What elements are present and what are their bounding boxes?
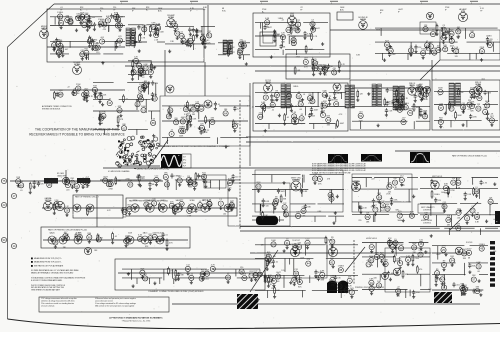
svg-text:68: 68 bbox=[152, 184, 154, 186]
svg-text:120: 120 bbox=[271, 288, 274, 290]
svg-text:68: 68 bbox=[283, 46, 285, 48]
svg-text:4.7K: 4.7K bbox=[475, 212, 480, 214]
svg-text:100K: 100K bbox=[281, 191, 286, 193]
svg-text:©Howard W. Sams & Co., Inc. 19: ©Howard W. Sams & Co., Inc. 1955 bbox=[122, 320, 151, 323]
svg-text:68: 68 bbox=[331, 66, 333, 68]
svg-text:100K: 100K bbox=[141, 106, 146, 108]
svg-text:1 MEG: 1 MEG bbox=[141, 27, 147, 29]
svg-text:THE COOPERATION OF THE MANUFAC: THE COOPERATION OF THE MANUFACTURER OF T… bbox=[35, 128, 119, 132]
svg-text:270K: 270K bbox=[36, 183, 41, 185]
svg-text:2.2K: 2.2K bbox=[54, 200, 59, 202]
svg-text:100K: 100K bbox=[387, 102, 392, 104]
svg-text:1 MEG: 1 MEG bbox=[486, 35, 492, 37]
svg-text:1 MEG: 1 MEG bbox=[293, 86, 299, 88]
svg-text:.22: .22 bbox=[281, 19, 284, 21]
svg-text:4.7K: 4.7K bbox=[138, 66, 143, 68]
svg-text:1.5K: 1.5K bbox=[151, 119, 156, 121]
svg-text:270K: 270K bbox=[159, 240, 164, 242]
svg-text:MEASURED FROM TOP (12V) TL: MEASURED FROM TOP (12V) TL bbox=[34, 257, 62, 260]
svg-text:120: 120 bbox=[96, 52, 99, 54]
svg-text:1.5K: 1.5K bbox=[321, 111, 326, 113]
svg-text:12CU6: 12CU6 bbox=[45, 200, 53, 202]
svg-text:560K: 560K bbox=[397, 220, 402, 222]
svg-text:.001: .001 bbox=[456, 285, 460, 287]
svg-text:68: 68 bbox=[468, 257, 470, 259]
svg-text:.01: .01 bbox=[165, 235, 168, 237]
svg-text:100K: 100K bbox=[241, 41, 246, 43]
svg-text:120: 120 bbox=[281, 270, 284, 272]
svg-text:.0047: .0047 bbox=[408, 109, 414, 111]
svg-text:FOCUS: FOCUS bbox=[466, 242, 473, 244]
svg-text:.22: .22 bbox=[329, 96, 332, 98]
svg-text:.01: .01 bbox=[20, 190, 23, 192]
svg-text:560K: 560K bbox=[337, 93, 342, 95]
svg-text:270K: 270K bbox=[101, 112, 106, 114]
svg-text:B+: B+ bbox=[100, 10, 102, 12]
svg-text:.0047: .0047 bbox=[230, 52, 235, 54]
svg-text:317: 317 bbox=[183, 157, 186, 159]
svg-text:3.3K: 3.3K bbox=[345, 286, 350, 288]
svg-text:.001: .001 bbox=[205, 278, 209, 280]
svg-text:100K: 100K bbox=[205, 269, 210, 271]
svg-text:.0047: .0047 bbox=[180, 117, 186, 119]
svg-text:.22: .22 bbox=[142, 77, 145, 79]
svg-text:120: 120 bbox=[451, 105, 454, 107]
svg-text:.01: .01 bbox=[297, 101, 300, 103]
svg-text:.047: .047 bbox=[65, 49, 69, 51]
svg-text:220: 220 bbox=[358, 220, 361, 222]
svg-text:1.5K: 1.5K bbox=[387, 182, 392, 184]
svg-text:100K: 100K bbox=[137, 42, 142, 44]
svg-text:470: 470 bbox=[158, 29, 161, 31]
svg-text:MEASURED FROM TOP (12V) TL: MEASURED FROM TOP (12V) TL bbox=[34, 261, 62, 264]
svg-text:6AW8A: 6AW8A bbox=[352, 180, 360, 183]
svg-text:270K: 270K bbox=[76, 84, 81, 86]
svg-text:6.8K: 6.8K bbox=[264, 93, 269, 95]
svg-text:560K: 560K bbox=[175, 209, 180, 211]
svg-text:CONTROL: CONTROL bbox=[423, 210, 431, 212]
svg-text:.01: .01 bbox=[119, 45, 122, 47]
svg-text:68: 68 bbox=[300, 109, 302, 111]
svg-text:.001: .001 bbox=[448, 219, 452, 221]
svg-text:.001: .001 bbox=[141, 178, 145, 180]
svg-text:PRINTED CIRCUIT BOARD PC-202: PRINTED CIRCUIT BOARD PC-202 bbox=[355, 286, 384, 289]
svg-text:.001: .001 bbox=[59, 40, 63, 42]
svg-text:.0047: .0047 bbox=[314, 109, 319, 111]
svg-text:100K: 100K bbox=[179, 136, 184, 138]
svg-text:560K: 560K bbox=[337, 282, 342, 284]
svg-text:MEAS'D AT TERMINALS. ORIGINAL: MEAS'D AT TERMINALS. ORIGINAL GRID VOLTS… bbox=[31, 271, 74, 274]
svg-text:.0047: .0047 bbox=[276, 272, 282, 274]
svg-text:.0047: .0047 bbox=[152, 233, 158, 235]
svg-text:PART OF PRINTED CIRCUIT BOARD: PART OF PRINTED CIRCUIT BOARD PC-101 bbox=[452, 155, 487, 158]
svg-text:120: 120 bbox=[438, 200, 441, 202]
svg-text:VERT LINEARITY: VERT LINEARITY bbox=[421, 206, 436, 209]
svg-text:A PHOTOFACT STANDARD NOTATION: A PHOTOFACT STANDARD NOTATION SCHEMATIC bbox=[109, 317, 163, 320]
svg-text:SEE PARTS LIST FOR ALTERNATE: SEE PARTS LIST FOR ALTERNATE bbox=[34, 265, 64, 268]
svg-text:B+: B+ bbox=[80, 9, 82, 11]
svg-text:100K: 100K bbox=[287, 101, 292, 103]
svg-text:6.8K: 6.8K bbox=[265, 18, 270, 20]
svg-text:6.8K: 6.8K bbox=[106, 16, 111, 18]
svg-text:4.7K: 4.7K bbox=[211, 265, 216, 267]
svg-text:5AQ5: 5AQ5 bbox=[49, 231, 55, 234]
svg-text:.22: .22 bbox=[271, 110, 274, 112]
svg-text:CANDOHM: CANDOHM bbox=[57, 174, 67, 177]
svg-text:270K: 270K bbox=[389, 90, 394, 92]
svg-text:.001: .001 bbox=[297, 70, 301, 72]
svg-text:120: 120 bbox=[324, 75, 327, 77]
svg-text:6.8K: 6.8K bbox=[228, 179, 233, 181]
svg-text:1 MEG: 1 MEG bbox=[397, 105, 404, 107]
svg-text:4.7K: 4.7K bbox=[102, 20, 107, 22]
svg-text:270K: 270K bbox=[291, 36, 296, 38]
svg-text:6.8K: 6.8K bbox=[320, 271, 325, 273]
svg-text:.047: .047 bbox=[493, 219, 497, 221]
svg-text:6.8K: 6.8K bbox=[323, 90, 328, 92]
svg-text:1 MEG: 1 MEG bbox=[476, 291, 482, 293]
svg-text:270K: 270K bbox=[415, 258, 420, 260]
svg-text:1 MEG: 1 MEG bbox=[434, 194, 440, 196]
svg-text:1 MEG: 1 MEG bbox=[174, 176, 180, 178]
svg-text:68: 68 bbox=[478, 271, 480, 273]
svg-text:270K: 270K bbox=[203, 132, 208, 134]
svg-text:1.5K: 1.5K bbox=[454, 47, 459, 49]
svg-text:120: 120 bbox=[235, 176, 238, 178]
svg-text:100K: 100K bbox=[358, 120, 363, 122]
svg-text:6AW8A: 6AW8A bbox=[292, 178, 300, 181]
svg-text:.047: .047 bbox=[470, 89, 474, 91]
svg-text:4.5 MB SOUND CHANNEL: 4.5 MB SOUND CHANNEL bbox=[108, 170, 130, 173]
svg-text:.047: .047 bbox=[119, 17, 123, 19]
svg-text:PART OF PRINTED CIRCUIT: PART OF PRINTED CIRCUIT bbox=[75, 196, 100, 199]
svg-text:.0047: .0047 bbox=[436, 254, 441, 256]
svg-text:.0047: .0047 bbox=[308, 49, 313, 51]
svg-text:6AF4: 6AF4 bbox=[41, 27, 47, 30]
svg-text:120: 120 bbox=[208, 182, 211, 184]
svg-text:.01: .01 bbox=[251, 106, 254, 108]
svg-text:.01: .01 bbox=[59, 180, 62, 182]
svg-text:120: 120 bbox=[282, 36, 285, 38]
svg-text:.001: .001 bbox=[390, 273, 394, 275]
svg-text:220: 220 bbox=[66, 190, 69, 192]
svg-text:560K: 560K bbox=[457, 115, 462, 117]
svg-text:560K: 560K bbox=[438, 88, 443, 90]
svg-text:6.8K: 6.8K bbox=[444, 184, 449, 186]
svg-text:100K: 100K bbox=[416, 107, 421, 109]
svg-text:.047: .047 bbox=[202, 199, 206, 201]
svg-text:6CB6: 6CB6 bbox=[168, 17, 174, 19]
svg-text:6.8K: 6.8K bbox=[381, 201, 386, 203]
svg-text:3.3K: 3.3K bbox=[410, 211, 415, 213]
svg-text:.001: .001 bbox=[438, 278, 442, 280]
svg-text:RECEIVER MAKES IT POSSIBLE TO: RECEIVER MAKES IT POSSIBLE TO BRING YOU … bbox=[29, 133, 124, 137]
svg-text:3.3K: 3.3K bbox=[138, 235, 143, 237]
svg-text:6AU6: 6AU6 bbox=[360, 18, 366, 21]
svg-text:1 MEG: 1 MEG bbox=[57, 12, 64, 14]
svg-text:560K: 560K bbox=[369, 256, 374, 258]
svg-text:.0047: .0047 bbox=[466, 248, 472, 250]
svg-text:100K: 100K bbox=[383, 260, 388, 262]
svg-text:.01: .01 bbox=[438, 95, 441, 97]
svg-text:ITEM WHERE VOLTAGES MAY VARY: ITEM WHERE VOLTAGES MAY VARY bbox=[31, 289, 61, 292]
svg-text:100K: 100K bbox=[271, 240, 276, 242]
svg-text:1 MEG: 1 MEG bbox=[338, 266, 345, 268]
svg-text:3.3K: 3.3K bbox=[432, 48, 437, 50]
svg-text:270K: 270K bbox=[461, 295, 466, 297]
svg-text:1 MEG: 1 MEG bbox=[392, 241, 398, 243]
svg-text:6.8K: 6.8K bbox=[261, 102, 266, 104]
svg-text:1.5K: 1.5K bbox=[156, 24, 161, 26]
svg-text:1.5K: 1.5K bbox=[138, 92, 143, 94]
svg-text:68: 68 bbox=[332, 100, 334, 102]
svg-text:.0047: .0047 bbox=[189, 105, 194, 107]
svg-text:2.2K: 2.2K bbox=[418, 250, 423, 252]
svg-text:1 MEG: 1 MEG bbox=[479, 244, 486, 246]
svg-text:100K: 100K bbox=[159, 31, 164, 33]
svg-text:1 MEG: 1 MEG bbox=[91, 40, 97, 42]
svg-text:.01: .01 bbox=[114, 236, 117, 238]
svg-text:6.8K: 6.8K bbox=[477, 262, 482, 264]
svg-text:.01: .01 bbox=[303, 94, 306, 96]
svg-text:.047: .047 bbox=[139, 75, 143, 77]
svg-text:.22: .22 bbox=[67, 87, 70, 89]
svg-text:220: 220 bbox=[198, 210, 201, 212]
svg-text:.001: .001 bbox=[331, 285, 335, 287]
svg-text:1 MEG: 1 MEG bbox=[115, 21, 122, 23]
svg-text:.0047: .0047 bbox=[339, 123, 344, 125]
svg-text:270K: 270K bbox=[480, 47, 485, 49]
svg-text:VERT HOLD: VERT HOLD bbox=[432, 176, 443, 178]
svg-text:560K: 560K bbox=[485, 101, 490, 103]
svg-text:100K: 100K bbox=[412, 243, 417, 245]
svg-text:B+: B+ bbox=[146, 9, 148, 11]
svg-text:.22: .22 bbox=[89, 211, 92, 213]
svg-text:B+: B+ bbox=[262, 11, 264, 13]
svg-text:➡ DENOTES CHASSIS GROUND: ➡ DENOTES CHASSIS GROUND bbox=[134, 167, 170, 170]
svg-text:.0047: .0047 bbox=[487, 41, 493, 43]
svg-text:CHANNEL SELECTOR SWITCH SHOWN: CHANNEL SELECTOR SWITCH SHOWN ON CHANNEL… bbox=[161, 145, 230, 148]
svg-text:FILAMENT CONNECTIONS USED IN 2: FILAMENT CONNECTIONS USED IN 21AT (21 AT… bbox=[149, 290, 205, 293]
svg-text:.01: .01 bbox=[217, 104, 220, 106]
svg-text:68: 68 bbox=[66, 179, 68, 181]
svg-text:3.3K: 3.3K bbox=[58, 90, 63, 92]
svg-text:68: 68 bbox=[371, 207, 373, 209]
svg-text:PART OF PRINTED CIRCUIT BOARD: PART OF PRINTED CIRCUIT BOARD PC-201 bbox=[48, 229, 87, 232]
svg-text:.047: .047 bbox=[382, 255, 386, 257]
svg-text:.001: .001 bbox=[439, 28, 443, 30]
svg-text:CONTROL: CONTROL bbox=[423, 222, 431, 224]
svg-text:.0047: .0047 bbox=[103, 176, 109, 178]
svg-text:270K: 270K bbox=[450, 190, 455, 192]
svg-text:120: 120 bbox=[134, 73, 137, 75]
svg-text:4.7K: 4.7K bbox=[441, 246, 446, 248]
svg-text:HORIZ HOLD: HORIZ HOLD bbox=[366, 238, 378, 240]
svg-text:220: 220 bbox=[223, 214, 226, 216]
svg-text:3CB6: 3CB6 bbox=[189, 200, 195, 202]
svg-text:3BZ6: 3BZ6 bbox=[265, 82, 271, 84]
svg-text:.001: .001 bbox=[457, 217, 461, 219]
svg-text:E-SOCKET. TUNING STANDARDS MAX: E-SOCKET. TUNING STANDARDS MAX. bbox=[31, 279, 63, 282]
svg-text:270K: 270K bbox=[399, 244, 404, 246]
svg-text:220: 220 bbox=[155, 83, 158, 85]
svg-text:470: 470 bbox=[419, 269, 422, 271]
svg-text:.001: .001 bbox=[481, 79, 485, 81]
svg-text:.047: .047 bbox=[371, 179, 375, 181]
svg-text:.22: .22 bbox=[195, 38, 198, 40]
svg-text:6CB6: 6CB6 bbox=[74, 64, 80, 66]
svg-text:6.8K: 6.8K bbox=[144, 64, 149, 66]
svg-text:100K: 100K bbox=[179, 127, 184, 129]
svg-text:.22: .22 bbox=[125, 98, 128, 100]
svg-text:PART OF PRINTED CIRCUIT BOARD: PART OF PRINTED CIRCUIT BOARD PC-101 bbox=[129, 200, 168, 203]
svg-text:.22: .22 bbox=[277, 35, 280, 37]
svg-text:220: 220 bbox=[478, 94, 481, 96]
svg-text:220: 220 bbox=[123, 217, 126, 219]
svg-text:.01: .01 bbox=[286, 117, 289, 119]
svg-text:560K: 560K bbox=[266, 108, 271, 110]
svg-text:470: 470 bbox=[397, 296, 400, 298]
svg-text:3BZ6: 3BZ6 bbox=[409, 85, 415, 87]
svg-text:SHOWN ON MODELS: SHOWN ON MODELS bbox=[42, 109, 61, 111]
svg-text:2.2K: 2.2K bbox=[292, 112, 297, 114]
svg-text:68: 68 bbox=[277, 281, 279, 283]
svg-text:(Pt.): (Pt.) bbox=[183, 159, 187, 162]
svg-text:270K: 270K bbox=[125, 236, 130, 238]
svg-text:270K: 270K bbox=[108, 189, 113, 191]
svg-text:.01: .01 bbox=[275, 262, 278, 264]
svg-text:470: 470 bbox=[40, 184, 43, 186]
